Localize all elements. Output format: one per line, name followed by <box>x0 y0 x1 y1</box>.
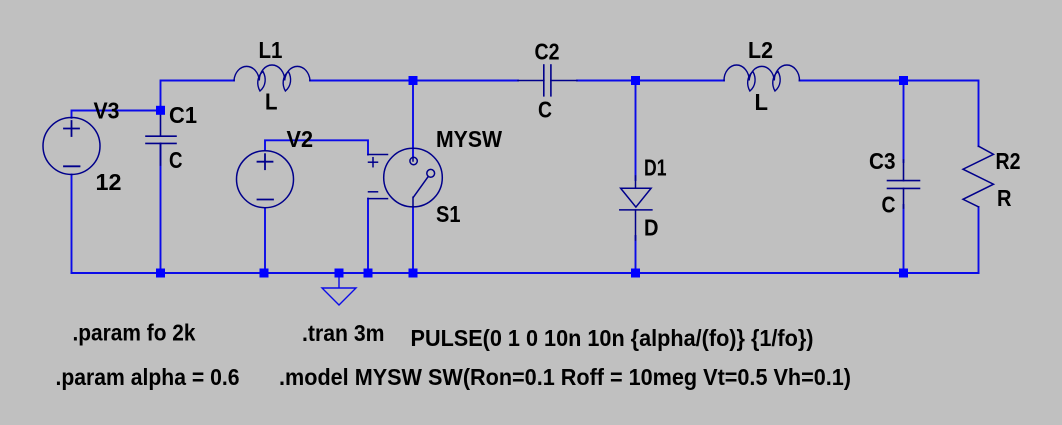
capacitor C1 <box>146 115 176 165</box>
svg-text:PULSE(0 1 0 10n 10n {alpha/(fo: PULSE(0 1 0 10n 10n {alpha/(fo)} {1/fo}) <box>411 325 814 351</box>
wire V2 bottom <box>264 208 266 273</box>
wire V3 top to junction <box>72 111 161 118</box>
wire V3 bottom <box>71 175 73 274</box>
wire bottom rail <box>72 272 979 274</box>
svg-text:R: R <box>997 185 1012 211</box>
wire V2 top to switch plus <box>265 140 368 154</box>
svg-text:MYSW: MYSW <box>436 126 503 152</box>
capacitor C3 <box>888 160 920 208</box>
svg-text:V2: V2 <box>287 126 314 152</box>
svg-text:L2: L2 <box>748 37 773 63</box>
svg-text:D: D <box>644 215 659 241</box>
svg-text:C3: C3 <box>869 148 896 174</box>
inductor L2 <box>724 65 800 91</box>
wire top rail C2 to L2 <box>577 80 724 82</box>
junction bottom rail at switch minus <box>364 269 373 278</box>
svg-text:C2: C2 <box>535 39 560 65</box>
svg-text:L: L <box>755 89 769 115</box>
svg-text:R2: R2 <box>996 148 1021 174</box>
wire top rail left segment <box>161 81 235 111</box>
svg-text:V3: V3 <box>94 98 120 124</box>
svg-text:C: C <box>538 97 552 123</box>
svg-text:L1: L1 <box>259 37 283 63</box>
junction bottom rail at V2 <box>260 269 269 278</box>
resistor R2 <box>963 146 994 207</box>
wire D1 top <box>635 81 637 181</box>
junction bottom rail at ground <box>335 269 344 278</box>
junction bottom rail at D1 <box>631 269 640 278</box>
wire top rail L2 to right corner <box>800 81 979 147</box>
svg-text:C: C <box>882 192 896 218</box>
capacitor C2 <box>518 65 577 96</box>
inductor L1 <box>234 65 310 91</box>
svg-text:C1: C1 <box>169 102 197 128</box>
svg-text:S1: S1 <box>436 201 461 227</box>
svg-text:.param alpha = 0.6: .param alpha = 0.6 <box>56 364 240 390</box>
wire C3 top <box>903 81 905 163</box>
wire switch top <box>412 81 414 158</box>
voltage source V3 <box>43 118 100 175</box>
svg-text:D1: D1 <box>644 155 667 181</box>
wire D1 bottom <box>635 236 637 273</box>
svg-text:C: C <box>169 147 183 173</box>
diode D1 <box>620 176 652 240</box>
svg-text:L: L <box>265 89 278 115</box>
junction bottom rail at C3 <box>899 269 908 278</box>
svg-text:.tran 3m: .tran 3m <box>302 320 385 346</box>
junction top rail at D1 <box>631 76 640 85</box>
junction top rail at C3 <box>899 76 908 85</box>
wire switch minus down <box>367 199 369 273</box>
svg-text:12: 12 <box>96 169 122 195</box>
ground <box>322 277 356 306</box>
wire C1 bottom lead <box>160 143 162 273</box>
voltage source V2 <box>237 151 294 208</box>
junction top rail at switch <box>409 76 418 85</box>
junction bottom rail at switch <box>409 269 418 278</box>
wire switch bottom <box>412 207 414 273</box>
wire C3 bottom <box>903 205 905 273</box>
svg-text:.param fo 2k: .param fo 2k <box>73 320 197 346</box>
wire right column below R2 <box>978 207 980 273</box>
junction bottom rail at C1 <box>156 269 165 278</box>
switch S1 <box>368 148 442 207</box>
wire top rail L1 to C2 <box>310 80 518 82</box>
svg-text:.model MYSW SW(Ron=0.1 Roff =: .model MYSW SW(Ron=0.1 Roff = 10meg Vt=0… <box>279 364 851 390</box>
junction V3/C1 node <box>156 106 165 115</box>
